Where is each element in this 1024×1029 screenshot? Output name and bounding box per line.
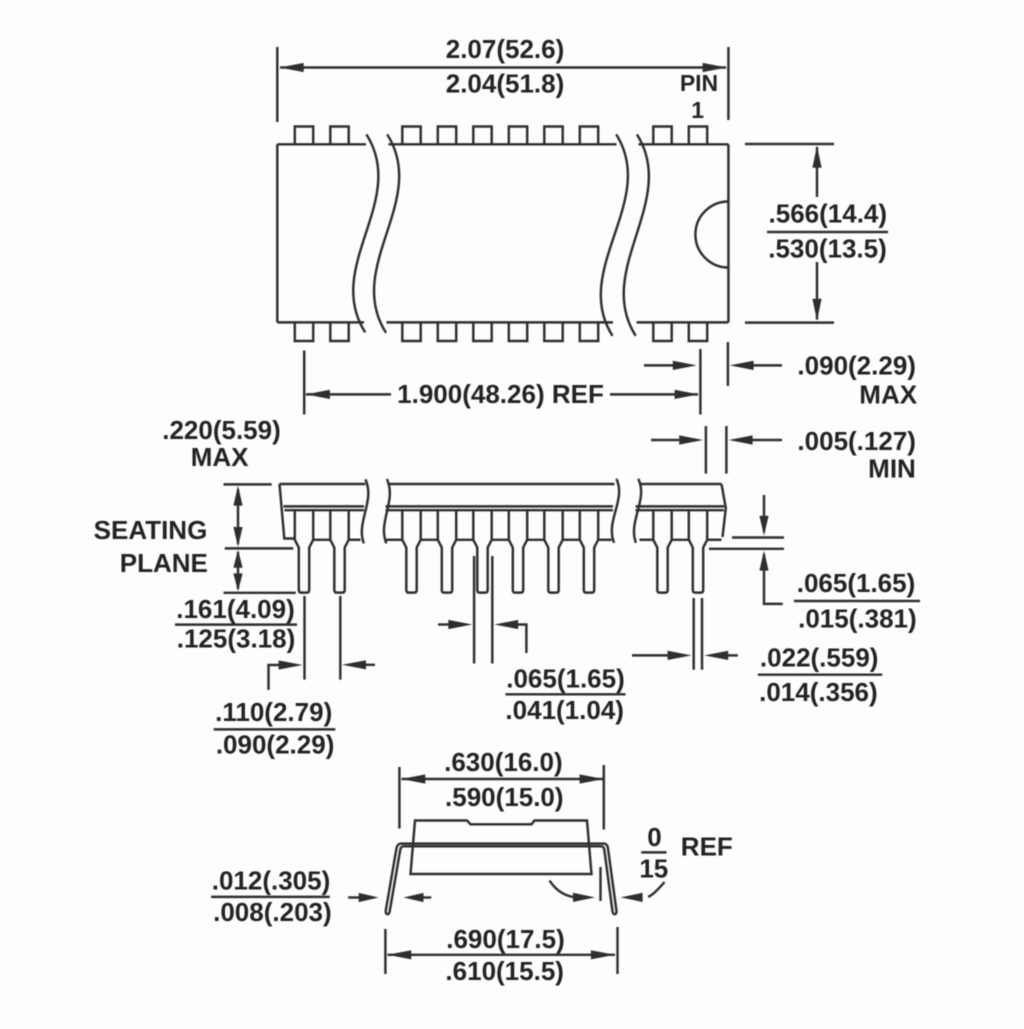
svg-text:MIN: MIN: [868, 454, 916, 484]
side view: right end cap: [722, 484, 726, 537]
dimension: .090(2.29) MAX lead to body end: [727, 342, 729, 386]
svg-text:0: 0: [647, 822, 661, 852]
svg-text:.610(15.5): .610(15.5): [445, 956, 564, 986]
side view: left break lines: [362, 479, 368, 543]
side view: body top edge: [280, 483, 366, 485]
dimension: .161(4.09)/.125(3.18) lead length: [237, 552, 239, 589]
svg-text:MAX: MAX: [191, 442, 249, 472]
dimension: .110(2.79)/.090(2.29) lead pitch: [303, 596, 305, 680]
top view: upper pin row (10 leads): [295, 127, 313, 145]
svg-text:.065(1.65): .065(1.65): [797, 568, 916, 598]
svg-text:.630(16.0): .630(16.0): [444, 747, 563, 777]
top view: right break lines: [601, 134, 628, 335]
top view: left break lines: [353, 134, 378, 332]
svg-text:MAX: MAX: [859, 380, 917, 410]
top view: lower pin row (10 leads): [295, 322, 313, 341]
side view: body bottom double line: [284, 505, 365, 507]
svg-text:.690(17.5): .690(17.5): [446, 924, 565, 954]
svg-text:1.900(48.26) REF: 1.900(48.26) REF: [397, 379, 604, 409]
svg-text:.008(.203): .008(.203): [213, 897, 332, 927]
side view: seating line segments between leads: [313, 539, 330, 541]
svg-text:.090(2.29): .090(2.29): [216, 729, 335, 759]
svg-text:.015(.381): .015(.381): [798, 603, 917, 633]
end view: package body: [411, 821, 592, 875]
svg-text:.590(15.0): .590(15.0): [445, 782, 564, 812]
svg-text:15: 15: [639, 854, 668, 884]
svg-text:PIN: PIN: [680, 70, 718, 96]
dimension: .022(.559)/.014(.356) lead width: [692, 598, 694, 670]
dimension: overall length 2.07(52.6)/2.04(51.8): [276, 47, 278, 122]
svg-text:PLANE: PLANE: [120, 548, 208, 578]
svg-text:.041(1.04): .041(1.04): [505, 695, 624, 725]
svg-text:.022(.559): .022(.559): [760, 642, 879, 672]
end view: right lead: [602, 844, 616, 915]
svg-text:.566(14.4): .566(14.4): [769, 199, 888, 229]
end view: lead frame lines: [401, 842, 605, 844]
dimension: .065(1.65)/.015(.381) standoff: [732, 536, 784, 538]
side view: leads (shoulder + pin profiles): [295, 510, 313, 592]
svg-text:REF: REF: [681, 831, 733, 861]
svg-text:2.04(51.8): 2.04(51.8): [446, 69, 565, 99]
dimension: .630(16.0)/.590(15.0) body width: [398, 767, 400, 829]
top view: package body outline: [276, 144, 278, 322]
svg-text:.530(13.5): .530(13.5): [768, 234, 887, 264]
svg-text:.125(3.18): .125(3.18): [177, 624, 296, 654]
svg-text:1: 1: [691, 97, 704, 123]
end view: left lead: [386, 844, 403, 915]
side view: left end cap: [280, 484, 295, 539]
svg-text:.014(.356): .014(.356): [759, 677, 878, 707]
dimension: .005(.127) MIN body to shoulder gap: [705, 426, 707, 474]
dimension: 1.900(48.26) REF: [303, 351, 305, 415]
dimension: .065(1.65)/.041(1.04) shoulder width: [473, 556, 475, 664]
svg-text:.065(1.65): .065(1.65): [506, 663, 625, 693]
svg-text:SEATING: SEATING: [94, 515, 208, 545]
svg-text:.090(2.29): .090(2.29): [797, 351, 916, 381]
dimension: .690(17.5)/.610(15.5) lead span: [384, 929, 386, 974]
side view: right break lines: [612, 479, 619, 543]
top view: pin-1 index notch (semicircle): [695, 202, 728, 268]
svg-text:.161(4.09): .161(4.09): [176, 594, 295, 624]
svg-text:.110(2.79): .110(2.79): [215, 697, 332, 727]
svg-text:.005(.127): .005(.127): [797, 426, 916, 456]
svg-text:.220(5.59): .220(5.59): [162, 415, 281, 445]
svg-text:2.07(52.6): 2.07(52.6): [446, 34, 565, 64]
dimension: body width .566(14.4)/.530(13.5): [745, 143, 834, 145]
svg-text:.012(.305): .012(.305): [212, 866, 331, 896]
